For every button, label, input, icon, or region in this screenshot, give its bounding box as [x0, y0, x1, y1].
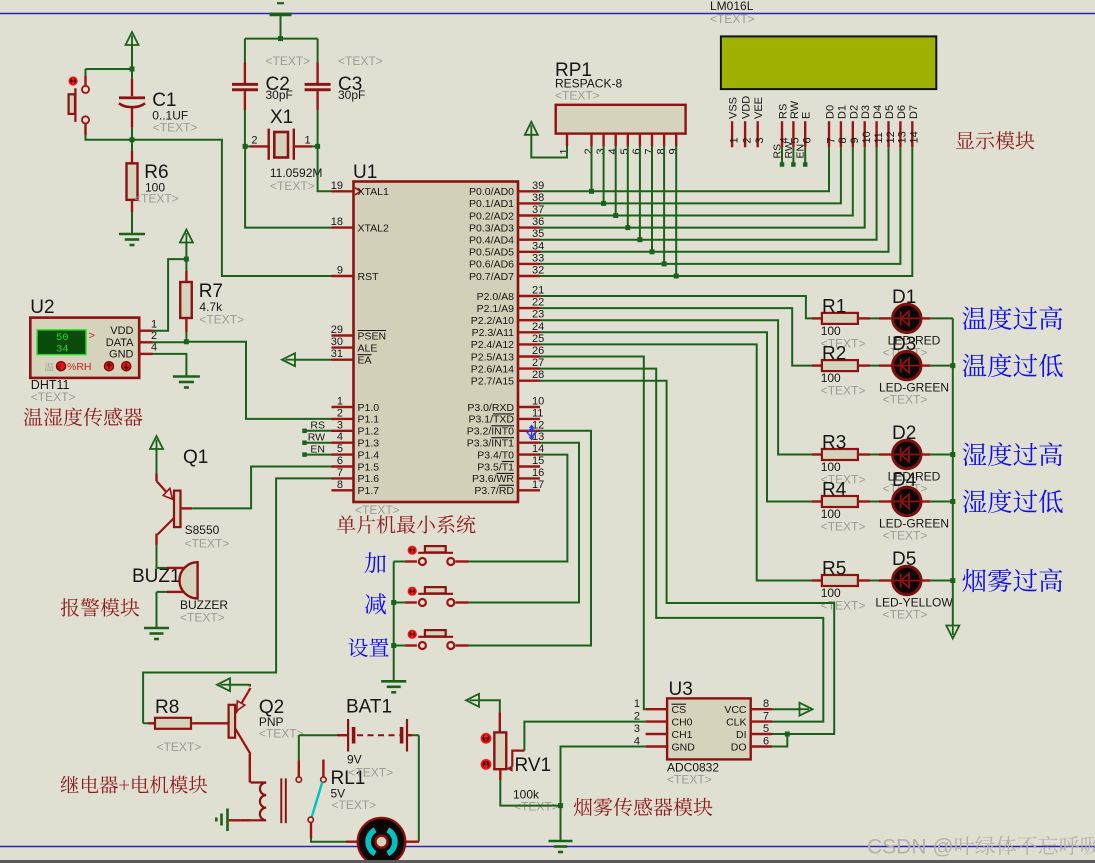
- wire: [156, 545, 158, 568]
- ground: [144, 627, 169, 630]
- wire base to P1.5: [192, 467, 331, 509]
- svg-text:D3: D3: [860, 105, 872, 119]
- svg-text:EA: EA: [358, 355, 372, 367]
- svg-text:1: 1: [337, 396, 343, 408]
- svg-text:P3.0/RXD: P3.0/RXD: [467, 402, 514, 414]
- U1 pin P3.3/INT1 13: [518, 442, 540, 444]
- svg-text:<TEXT>: <TEXT>: [555, 89, 600, 103]
- svg-text:R8: R8: [155, 697, 179, 718]
- U1 pin P2.7/A15 28: [518, 380, 540, 382]
- svg-text:<TEXT>: <TEXT>: [821, 384, 866, 398]
- wire to P3.3: [469, 443, 580, 603]
- wire: [870, 317, 879, 319]
- potentiometer RV1 100k: [499, 712, 501, 732]
- node junction: [662, 261, 667, 266]
- svg-text:25: 25: [532, 333, 544, 345]
- U1 pin P1.2 3: [332, 430, 354, 432]
- cursor mark (blue cross): [527, 426, 536, 440]
- U3 pin CS 1: [646, 708, 668, 710]
- label relay motor module: [61, 776, 208, 794]
- svg-text:>: >: [89, 330, 95, 342]
- wire D2 to P0.2: [540, 147, 853, 215]
- wire D5 to P0.5: [540, 147, 889, 252]
- svg-text:21: 21: [532, 285, 544, 297]
- svg-text:30: 30: [331, 336, 343, 348]
- ground (rotated left): [226, 809, 229, 832]
- wire D0 to P0.0: [540, 147, 829, 191]
- svg-text:P3.2/INT0: P3.2/INT0: [467, 426, 514, 438]
- svg-text:19: 19: [331, 180, 343, 192]
- wire P2.2 to R3: [540, 320, 812, 454]
- svg-text:RW: RW: [789, 100, 801, 119]
- U1 pin P3.7/RD 17: [518, 489, 540, 491]
- svg-text:13: 13: [897, 131, 909, 143]
- node junction: [637, 237, 642, 242]
- RP1 pin 9: [675, 134, 677, 146]
- svg-text:<TEXT>: <TEXT>: [199, 313, 244, 327]
- ground: [549, 840, 573, 843]
- U1 pin PSEN 29: [332, 334, 354, 336]
- wire P2.6 to CLK: [540, 369, 823, 722]
- svg-text:9V: 9V: [347, 753, 362, 767]
- svg-text:<TEXT>: <TEXT>: [710, 12, 755, 26]
- svg-text:P0.3/AD3: P0.3/AD3: [469, 222, 514, 234]
- svg-text:11: 11: [532, 407, 543, 419]
- U1 pin RST 9: [332, 275, 354, 277]
- wire P2.0 to R1: [540, 296, 812, 318]
- relay RL1 coil: [249, 761, 251, 763]
- node junction: [785, 732, 790, 737]
- node junction: [184, 257, 189, 262]
- svg-text:1: 1: [558, 148, 570, 154]
- svg-text:RS: RS: [310, 420, 325, 432]
- svg-text:P2.3/A11: P2.3/A11: [472, 327, 515, 339]
- wire: [157, 591, 168, 593]
- svg-text:22: 22: [532, 297, 544, 309]
- svg-text:7: 7: [337, 467, 343, 479]
- svg-text:<TEXT>: <TEXT>: [185, 537, 230, 551]
- U1 pin P1.6 7: [332, 477, 354, 479]
- power symbol (arrow down): [946, 626, 959, 639]
- svg-text:D2: D2: [848, 105, 860, 119]
- power symbol (arrow right): [772, 708, 799, 710]
- power symbol (arrow up): [525, 122, 538, 135]
- wire P2.1 to R2: [540, 308, 812, 366]
- svg-text:P0.0/AD0: P0.0/AD0: [469, 186, 514, 198]
- ground: [119, 233, 145, 236]
- svg-text:P1.2: P1.2: [358, 426, 380, 438]
- net label EN: [804, 147, 806, 163]
- U1 pin P1.0 1: [332, 406, 354, 408]
- net label EN: [302, 452, 307, 457]
- U1 pin P2.4/A12 25: [518, 343, 540, 345]
- LED D4 LED-GREEN: [879, 500, 892, 502]
- svg-text:<TEXT>: <TEXT>: [348, 766, 393, 780]
- wire: [930, 317, 952, 319]
- svg-text:<TEXT>: <TEXT>: [153, 121, 198, 135]
- svg-text:<TEXT>: <TEXT>: [667, 773, 712, 787]
- U1 pin P3.4/T0 14: [518, 453, 540, 455]
- wire coil to ground: [241, 819, 251, 821]
- U1 pin ALE 30: [332, 346, 354, 348]
- label minimal system: [337, 515, 476, 534]
- wire D6 to P0.6: [540, 147, 900, 264]
- wire: [156, 449, 158, 474]
- svg-text:EN: EN: [795, 144, 807, 159]
- svg-text:P0.5/AD5: P0.5/AD5: [469, 247, 514, 259]
- svg-text:36: 36: [532, 216, 544, 228]
- U1 pin P3.5/T1 15: [518, 465, 540, 467]
- label 湿度过低: [963, 489, 1063, 513]
- svg-text:P0.2/AD2: P0.2/AD2: [469, 210, 514, 222]
- svg-text:P3.7/RD: P3.7/RD: [474, 485, 514, 497]
- svg-text:37: 37: [532, 204, 544, 216]
- svg-text:D7: D7: [908, 105, 920, 119]
- net label RS: [302, 429, 307, 434]
- svg-text:DATA: DATA: [106, 337, 134, 349]
- U1 pin P1.3 4: [332, 442, 354, 444]
- svg-text:34: 34: [532, 240, 544, 252]
- svg-text:29: 29: [331, 324, 343, 336]
- svg-text:#: #: [57, 363, 62, 372]
- node junction: [601, 201, 606, 206]
- resistor R6: [131, 140, 133, 151]
- wire: [639, 146, 641, 240]
- wire: [870, 501, 879, 503]
- svg-text:9: 9: [849, 137, 861, 143]
- wire: [85, 69, 87, 76]
- svg-text:32: 32: [532, 265, 544, 277]
- resistor R3 100: [812, 453, 822, 455]
- svg-text:P1.5: P1.5: [358, 461, 380, 473]
- svg-text:4: 4: [607, 148, 619, 154]
- wiper: [512, 751, 524, 767]
- U3 pin CH1 3: [646, 733, 668, 735]
- svg-text:Q1: Q1: [183, 447, 208, 468]
- svg-text:10: 10: [861, 131, 873, 143]
- svg-text:<TEXT>: <TEXT>: [355, 503, 400, 517]
- wire P2.4 to R5: [540, 344, 812, 580]
- wire to motor: [311, 838, 346, 842]
- wire: [663, 146, 665, 264]
- LED D2 LED-RED: [879, 453, 892, 455]
- svg-text:D1: D1: [892, 287, 916, 308]
- wire: [870, 454, 879, 456]
- wire DATA to P1.1: [153, 341, 187, 343]
- svg-text:2: 2: [583, 148, 595, 154]
- node junction: [589, 189, 594, 194]
- svg-text:7: 7: [643, 148, 655, 154]
- svg-text:BAT1: BAT1: [346, 697, 392, 718]
- wire to P3.2: [469, 431, 592, 646]
- resistor R2 100: [812, 364, 822, 366]
- svg-text:EN: EN: [310, 443, 325, 455]
- svg-text:<TEXT>: <TEXT>: [180, 611, 225, 625]
- wire P2.3 to R4: [540, 332, 812, 501]
- svg-text:P1.6: P1.6: [358, 473, 380, 485]
- RP1 pin 4: [615, 134, 617, 146]
- wire P1.6 to R8: [143, 478, 331, 723]
- svg-text:U3: U3: [669, 679, 693, 700]
- svg-text:CS: CS: [672, 704, 687, 716]
- svg-text:P2.1/A9: P2.1/A9: [477, 303, 515, 315]
- push button MINUS (减): [408, 587, 417, 596]
- svg-text:D6: D6: [896, 105, 908, 119]
- svg-text:P1.1: P1.1: [358, 414, 380, 426]
- svg-text:R4: R4: [822, 480, 847, 501]
- label display module: [956, 131, 1034, 149]
- net label RW: [302, 440, 307, 445]
- U3 pin CH0 2: [646, 720, 668, 722]
- wire: [86, 135, 132, 140]
- U1 pin P0.6/AD6 33: [518, 263, 540, 265]
- svg-text:31: 31: [331, 348, 343, 360]
- power symbol (arrow up): [150, 436, 163, 449]
- svg-text:6: 6: [802, 137, 814, 143]
- svg-text:8: 8: [837, 137, 849, 143]
- wire: [627, 146, 629, 228]
- wire: [870, 365, 879, 367]
- ground: [381, 680, 406, 683]
- net label RS: [781, 147, 783, 163]
- node junction: [625, 225, 630, 230]
- svg-text:50: 50: [56, 332, 69, 344]
- svg-text:<TEXT>: <TEXT>: [821, 520, 866, 534]
- svg-text:D4: D4: [892, 470, 917, 491]
- power symbol (arrow left): [466, 694, 479, 707]
- svg-text:27: 27: [532, 357, 544, 369]
- LED D5 LED-YELLOW: [879, 579, 892, 581]
- svg-text:S8550: S8550: [185, 523, 220, 537]
- svg-text:2: 2: [741, 137, 753, 143]
- svg-text:38: 38: [532, 192, 544, 204]
- svg-text:R3: R3: [822, 433, 846, 454]
- svg-text:RW: RW: [308, 432, 325, 444]
- wire to P3.4: [469, 455, 568, 562]
- wire: [86, 68, 133, 70]
- svg-text:GND: GND: [109, 348, 134, 360]
- U1 pin P0.5/AD5 34: [518, 251, 540, 253]
- svg-text:30pF: 30pF: [338, 88, 365, 102]
- wire: [870, 580, 879, 582]
- U1 pin P1.5 6: [332, 465, 354, 467]
- capacitor C3: [317, 39, 319, 63]
- svg-text:5: 5: [619, 148, 631, 154]
- svg-text:<TEXT>: <TEXT>: [31, 390, 76, 404]
- svg-text:1: 1: [305, 135, 311, 147]
- label 烟雾过高: [962, 568, 1062, 592]
- wire: [603, 146, 605, 203]
- svg-text:CSDN @: CSDN @: [867, 836, 954, 859]
- svg-text:R1: R1: [822, 296, 846, 317]
- wire: [930, 365, 952, 367]
- wire D1 to P0.1: [540, 147, 841, 203]
- svg-text:3: 3: [754, 137, 766, 143]
- svg-text:4: 4: [151, 342, 157, 354]
- node junction: [950, 578, 955, 583]
- RP1 pin 3: [602, 134, 604, 146]
- wire P2.5 to CS: [540, 357, 646, 710]
- svg-text:34: 34: [56, 344, 69, 356]
- svg-text:P1.3: P1.3: [358, 438, 380, 450]
- U1 pin XTAL2 18: [332, 226, 354, 228]
- svg-text:CH0: CH0: [672, 716, 693, 728]
- bottom bar: [0, 860, 1095, 863]
- clock input mark: [355, 188, 361, 195]
- svg-text:P1.4: P1.4: [358, 449, 380, 461]
- svg-text:XTAL1: XTAL1: [358, 186, 389, 198]
- ground symbol (top, inverted): [270, 13, 292, 17]
- wire: [131, 45, 133, 69]
- svg-text:E: E: [801, 112, 813, 119]
- wire GND pin: [561, 747, 646, 806]
- svg-text:15: 15: [532, 455, 544, 467]
- svg-text:1: 1: [151, 319, 157, 331]
- svg-text:<TEXT>: <TEXT>: [259, 727, 304, 741]
- U1 pin P3.1/TXD 11: [518, 418, 540, 420]
- node junction: [558, 803, 563, 808]
- label temp-humidity sensor module: [24, 407, 143, 426]
- node junction: [391, 643, 396, 648]
- LED D3 LED-GREEN: [879, 364, 892, 366]
- svg-text:1: 1: [634, 698, 640, 710]
- svg-text:D2: D2: [892, 423, 916, 444]
- capacitor C2: [244, 39, 246, 63]
- label alarm module: [61, 598, 140, 616]
- svg-text:2: 2: [251, 135, 257, 147]
- svg-text:VDD: VDD: [110, 325, 133, 337]
- svg-text:R7: R7: [199, 281, 223, 302]
- label 温度过高: [963, 306, 1063, 330]
- node junction: [950, 499, 955, 504]
- resistor R4 100: [812, 500, 822, 502]
- U1 pin P0.3/AD3 36: [518, 226, 540, 228]
- RP1 pin 7: [651, 134, 653, 146]
- node junction: [278, 36, 283, 41]
- U1 pin P2.5/A13 26: [518, 355, 540, 357]
- U3 pin DI 5: [751, 733, 772, 735]
- wire: [591, 146, 593, 191]
- svg-text:<TEXT>: <TEXT>: [157, 740, 202, 754]
- U3 pin DO 6: [751, 745, 772, 747]
- svg-text:10: 10: [532, 396, 544, 408]
- node junction: [950, 363, 955, 368]
- RP1 pin 1: [566, 134, 568, 146]
- svg-text:3: 3: [634, 723, 640, 735]
- push button SET (设置): [408, 630, 417, 639]
- ground: [173, 375, 200, 378]
- svg-text:RST: RST: [358, 271, 380, 283]
- wire D4 to P0.4: [540, 147, 877, 239]
- U1 pin P2.1/A9 22: [518, 307, 540, 309]
- U1 pin XTAL1 19: [332, 190, 354, 192]
- label 温度过低: [963, 353, 1063, 377]
- svg-text:R2: R2: [822, 344, 846, 365]
- svg-text:P3.1/TXD: P3.1/TXD: [468, 414, 514, 426]
- wire: [930, 501, 952, 503]
- power symbol VCC (top-left arrow): [126, 32, 139, 45]
- svg-text:D5: D5: [892, 549, 916, 570]
- label smoke sensor module: [574, 798, 713, 817]
- svg-text:6: 6: [337, 455, 343, 467]
- RP1 pin 6: [639, 134, 641, 146]
- motor: [358, 818, 406, 863]
- svg-text:<TEXT>: <TEXT>: [266, 54, 311, 68]
- svg-text:1: 1: [728, 137, 740, 143]
- svg-text:26: 26: [532, 345, 544, 357]
- svg-text:P2.2/A10: P2.2/A10: [471, 315, 514, 327]
- svg-text:DO: DO: [731, 741, 747, 753]
- resistor R1 100: [812, 317, 822, 319]
- svg-text:3: 3: [337, 419, 343, 431]
- svg-text:2: 2: [151, 330, 157, 342]
- U1 pin P0.7/AD7 32: [518, 275, 540, 277]
- wire P2.7 to DI: [540, 381, 834, 734]
- svg-text:U1: U1: [353, 162, 377, 183]
- resistor R7: [185, 259, 187, 271]
- svg-text:ALE: ALE: [358, 342, 378, 354]
- svg-text:<TEXT>: <TEXT>: [883, 529, 928, 543]
- wire LED cathode rail: [952, 318, 954, 625]
- wire battery to motor: [418, 735, 420, 842]
- svg-text:P0.1/AD1: P0.1/AD1: [469, 198, 514, 210]
- svg-text:<TEXT>: <TEXT>: [883, 608, 928, 622]
- resistor R5 100: [812, 579, 822, 581]
- wire button common: [393, 562, 395, 682]
- U1 pin P3.6/WR 16: [518, 477, 540, 479]
- svg-text:P2.5/A13: P2.5/A13: [471, 351, 514, 363]
- svg-text:8: 8: [655, 148, 667, 154]
- node junction: [950, 452, 955, 457]
- svg-text:28: 28: [532, 369, 544, 381]
- wire: [294, 359, 332, 361]
- svg-text:16: 16: [532, 467, 544, 479]
- svg-text:39: 39: [532, 180, 544, 192]
- svg-text:D1: D1: [836, 105, 848, 119]
- wire DO to DI: [772, 734, 787, 747]
- svg-text:<TEXT>: <TEXT>: [821, 599, 866, 613]
- U3 pin CLK 7: [751, 720, 772, 722]
- svg-text:XTAL2: XTAL2: [358, 222, 389, 234]
- svg-text:14: 14: [909, 131, 921, 143]
- wire: [651, 146, 653, 252]
- U3 pin VCC 8: [751, 708, 772, 710]
- svg-text:CH1: CH1: [672, 729, 693, 741]
- node junction: [613, 213, 618, 218]
- svg-text:35: 35: [532, 228, 544, 240]
- svg-text:BUZ1: BUZ1: [132, 566, 181, 587]
- svg-text:VCC: VCC: [724, 704, 747, 716]
- svg-text:24: 24: [532, 321, 544, 333]
- svg-text:VDD: VDD: [741, 96, 753, 119]
- svg-text:4: 4: [337, 431, 343, 443]
- U3 pin GND 4: [646, 745, 668, 747]
- capacitor C1: [131, 69, 133, 79]
- svg-text:11.0592M: 11.0592M: [270, 166, 322, 180]
- svg-text:RS: RS: [772, 144, 784, 159]
- sheet border bottom: [0, 846, 1095, 848]
- wire XTAL1: [318, 146, 332, 191]
- svg-text:P2.7/A15: P2.7/A15: [471, 376, 514, 388]
- svg-text:P0.4/AD4: P0.4/AD4: [469, 235, 514, 247]
- svg-text:18: 18: [331, 216, 343, 228]
- RP1 pin 5: [627, 134, 629, 146]
- svg-text:X1: X1: [270, 107, 293, 128]
- svg-text:D3: D3: [892, 334, 916, 355]
- wire: [615, 146, 617, 216]
- wire: [930, 580, 952, 582]
- svg-text:P0.6/AD6: P0.6/AD6: [469, 259, 514, 271]
